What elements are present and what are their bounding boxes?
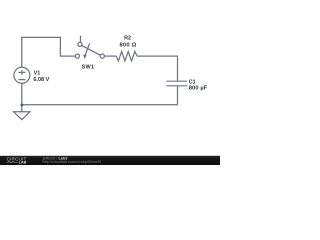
switch SW1: [75, 36, 104, 59]
switch SW1 arrowhead: [83, 54, 87, 59]
svg-text:800 µF: 800 µF: [189, 86, 208, 92]
svg-text:LAB: LAB: [19, 161, 27, 165]
wire: [22, 37, 76, 67]
ground: [14, 112, 30, 120]
wire: [104, 55, 116, 57]
svg-text:800 Ω: 800 Ω: [120, 42, 137, 48]
wire: [137, 56, 177, 81]
svg-text:V1: V1: [34, 71, 41, 77]
resistor R2: [116, 52, 137, 61]
svg-text:SW1: SW1: [82, 65, 95, 71]
voltage source V1: [14, 67, 30, 83]
node junction: [20, 103, 23, 106]
svg-text:R2: R2: [124, 35, 131, 41]
svg-text:6.08 V: 6.08 V: [33, 77, 49, 83]
CircuitLab logo wave: [6, 162, 17, 163]
wire: [21, 105, 23, 112]
wire: [177, 86, 179, 105]
wire: [21, 83, 23, 105]
wire: [22, 104, 178, 106]
capacitor C1: [166, 81, 187, 86]
svg-text:http://circuitlab.com/c/ndqc62: http://circuitlab.com/c/ndqc62bm29: [43, 160, 102, 164]
